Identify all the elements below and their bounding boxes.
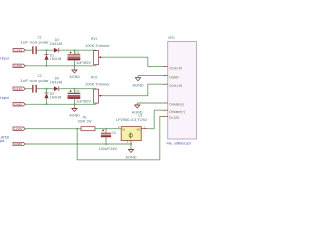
- net flag +12V: [13, 127, 25, 131]
- junction +12V branch: [76, 128, 78, 130]
- wire +12V to R1: [25, 128, 81, 130]
- wire U1 VO stub: [141, 128, 147, 130]
- pin DHeater(+): [163, 109, 168, 111]
- net flag CH2: [13, 48, 25, 52]
- svg-text:CH2: CH2: [14, 48, 23, 52]
- junction C3 to rail: [74, 65, 76, 67]
- diode D2 vertical clamp: [44, 89, 48, 105]
- wire R1 to U1 VI: [95, 128, 121, 130]
- junction U1 GND: [130, 143, 132, 145]
- wire CH2 to C1: [25, 49, 32, 51]
- svg-text:File: untitled.sch: File: untitled.sch: [167, 141, 192, 145]
- svg-text:1N4148: 1N4148: [50, 57, 62, 61]
- svg-text:AGND: AGND: [133, 84, 145, 88]
- svg-text:DCH2 IN: DCH2 IN: [169, 66, 182, 70]
- capacitor C2 (1uF non polar): [32, 85, 37, 93]
- wire D3 to trimmer: [59, 49, 96, 51]
- net flag GND: [13, 102, 25, 106]
- svg-text:C1: C1: [38, 36, 42, 40]
- pin DCH2 IN: [163, 66, 168, 68]
- pin DCH1 IN: [163, 83, 168, 85]
- svg-text:C2: C2: [38, 74, 42, 78]
- junction node at C3: [74, 49, 76, 51]
- svg-text:100uF/16V: 100uF/16V: [99, 147, 119, 151]
- wire GND rail bottom: [25, 143, 131, 145]
- svg-text:C3: C3: [75, 51, 79, 55]
- svg-text:VFD: VFD: [168, 36, 175, 40]
- trimmer potentiometer RV2: [94, 89, 103, 104]
- svg-text:RV2: RV2: [91, 76, 98, 80]
- svg-text:1N4148: 1N4148: [50, 80, 63, 84]
- resistor R1: [81, 127, 95, 131]
- svg-text:1N4148: 1N4148: [50, 95, 62, 99]
- svg-text:CH1: CH1: [14, 87, 23, 91]
- svg-text:D+12V: D+12V: [169, 116, 180, 120]
- svg-text:100R 1W: 100R 1W: [77, 120, 92, 124]
- svg-text:Left input: Left input: [0, 96, 9, 100]
- svg-text:VI: VI: [122, 128, 125, 132]
- svg-text:VO: VO: [137, 128, 141, 132]
- wire ground rail: [25, 65, 96, 67]
- svg-text:RV1: RV1: [91, 37, 98, 41]
- wire DHeater(-) pin to AGND: [137, 102, 162, 104]
- pin D+12V: [163, 116, 168, 118]
- junction node at C4: [74, 88, 76, 90]
- wire U1 GND pin: [130, 141, 132, 144]
- svg-text:DGND: DGND: [169, 75, 179, 79]
- diode D4 series: [54, 86, 59, 91]
- pin DGND: [163, 75, 168, 77]
- svg-text:C4: C4: [75, 89, 79, 93]
- svg-text:DHeater(-): DHeater(-): [169, 103, 184, 107]
- svg-text:GND: GND: [14, 102, 22, 106]
- wire CH1 to C2: [25, 88, 32, 90]
- junction node at D1: [46, 49, 48, 51]
- svg-text:+12V input: +12V input: [0, 139, 4, 143]
- junction C5 top: [105, 128, 107, 130]
- svg-text:1N4148: 1N4148: [50, 42, 63, 46]
- svg-text:LP2950-3.3,TO92: LP2950-3.3,TO92: [116, 118, 147, 122]
- wire DGND pin to AGND: [138, 75, 163, 77]
- wire RV2 wiper to VFD DCH1: [103, 84, 163, 96]
- junction D1 to rail: [46, 65, 48, 67]
- wire D+12V to +12V node: [77, 117, 163, 160]
- svg-text:100K Trimmer: 100K Trimmer: [85, 44, 111, 48]
- voltage regulator U1: [121, 127, 141, 141]
- pin DHeater(-): [163, 102, 168, 104]
- svg-text:Right input: Right input: [0, 56, 9, 60]
- capacitor C1 (1uF non polar): [32, 46, 37, 54]
- svg-text:1uF non polar: 1uF non polar: [20, 40, 50, 44]
- ground AGND at DHeater(-): [132, 103, 144, 114]
- polarized capacitor C5: [101, 129, 111, 144]
- svg-text:AGND: AGND: [69, 114, 80, 118]
- wire D4 to trimmer: [59, 88, 96, 90]
- polarized capacitor C3: [68, 50, 81, 66]
- ground AGND under C3: [69, 66, 80, 79]
- svg-text:1uF/50V: 1uF/50V: [76, 100, 92, 104]
- wire DHeater(+) to U1 VO: [148, 110, 163, 129]
- wire RV1 wiper to VFD DCH2: [103, 57, 163, 66]
- net flag GND: [13, 64, 25, 68]
- junction C4 to rail: [74, 103, 76, 105]
- wire C1 to node: [37, 49, 54, 51]
- wire ground rail: [25, 103, 96, 105]
- svg-text:DHeater(+): DHeater(+): [169, 110, 185, 114]
- svg-text:1uF/50V: 1uF/50V: [76, 61, 92, 65]
- svg-text:AGND: AGND: [69, 75, 80, 79]
- ground AGND under C4: [69, 104, 80, 117]
- diode D3 series: [54, 48, 59, 53]
- svg-text:C5: C5: [112, 131, 116, 135]
- svg-text:100K Trimmer: 100K Trimmer: [85, 83, 111, 87]
- svg-text:+12V: +12V: [14, 127, 23, 131]
- ground AGND at DGND: [133, 76, 145, 88]
- net flag GND: [13, 142, 25, 146]
- junction D2 to rail: [46, 103, 48, 105]
- diode D1 vertical clamp: [44, 50, 48, 66]
- svg-text:GND: GND: [14, 64, 22, 68]
- ground AGND at regulator: [126, 144, 138, 159]
- net flag CH1: [13, 87, 25, 91]
- trimmer potentiometer RV1: [94, 51, 103, 66]
- svg-text:GND: GND: [14, 142, 22, 146]
- junction C5 bottom: [105, 143, 107, 145]
- svg-text:DCH1 IN: DCH1 IN: [169, 84, 182, 88]
- IC VFD display module box: [168, 42, 197, 140]
- svg-text:AGND: AGND: [126, 155, 138, 159]
- svg-text:1uF non polar: 1uF non polar: [20, 79, 50, 83]
- polarized capacitor C4: [68, 89, 81, 105]
- wire C2 to node: [37, 88, 54, 90]
- junction node at D2: [46, 88, 48, 90]
